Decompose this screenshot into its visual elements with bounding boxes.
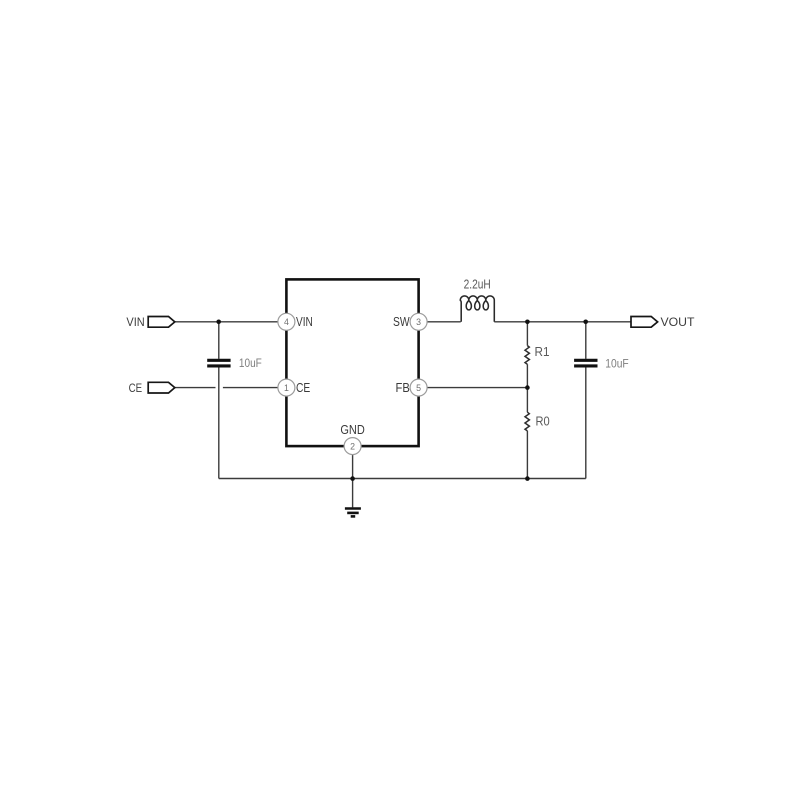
svg-text:R1: R1 (535, 345, 550, 359)
svg-text:FB: FB (396, 380, 410, 395)
svg-text:2.2uH: 2.2uH (464, 278, 491, 292)
svg-text:R0: R0 (536, 415, 550, 429)
svg-text:VOUT: VOUT (661, 315, 696, 329)
svg-text:GND: GND (340, 422, 364, 437)
svg-text:4: 4 (284, 317, 289, 327)
svg-text:VIN: VIN (296, 314, 313, 329)
svg-text:5: 5 (416, 383, 421, 393)
svg-text:2: 2 (350, 442, 355, 452)
svg-text:10uF: 10uF (605, 357, 628, 371)
svg-text:3: 3 (416, 317, 421, 327)
svg-text:CE: CE (296, 380, 311, 395)
svg-text:1: 1 (284, 383, 289, 393)
svg-text:SW: SW (393, 314, 410, 329)
svg-text:VIN: VIN (126, 315, 144, 329)
svg-text:10uF: 10uF (239, 356, 262, 370)
svg-text:CE: CE (129, 381, 143, 395)
